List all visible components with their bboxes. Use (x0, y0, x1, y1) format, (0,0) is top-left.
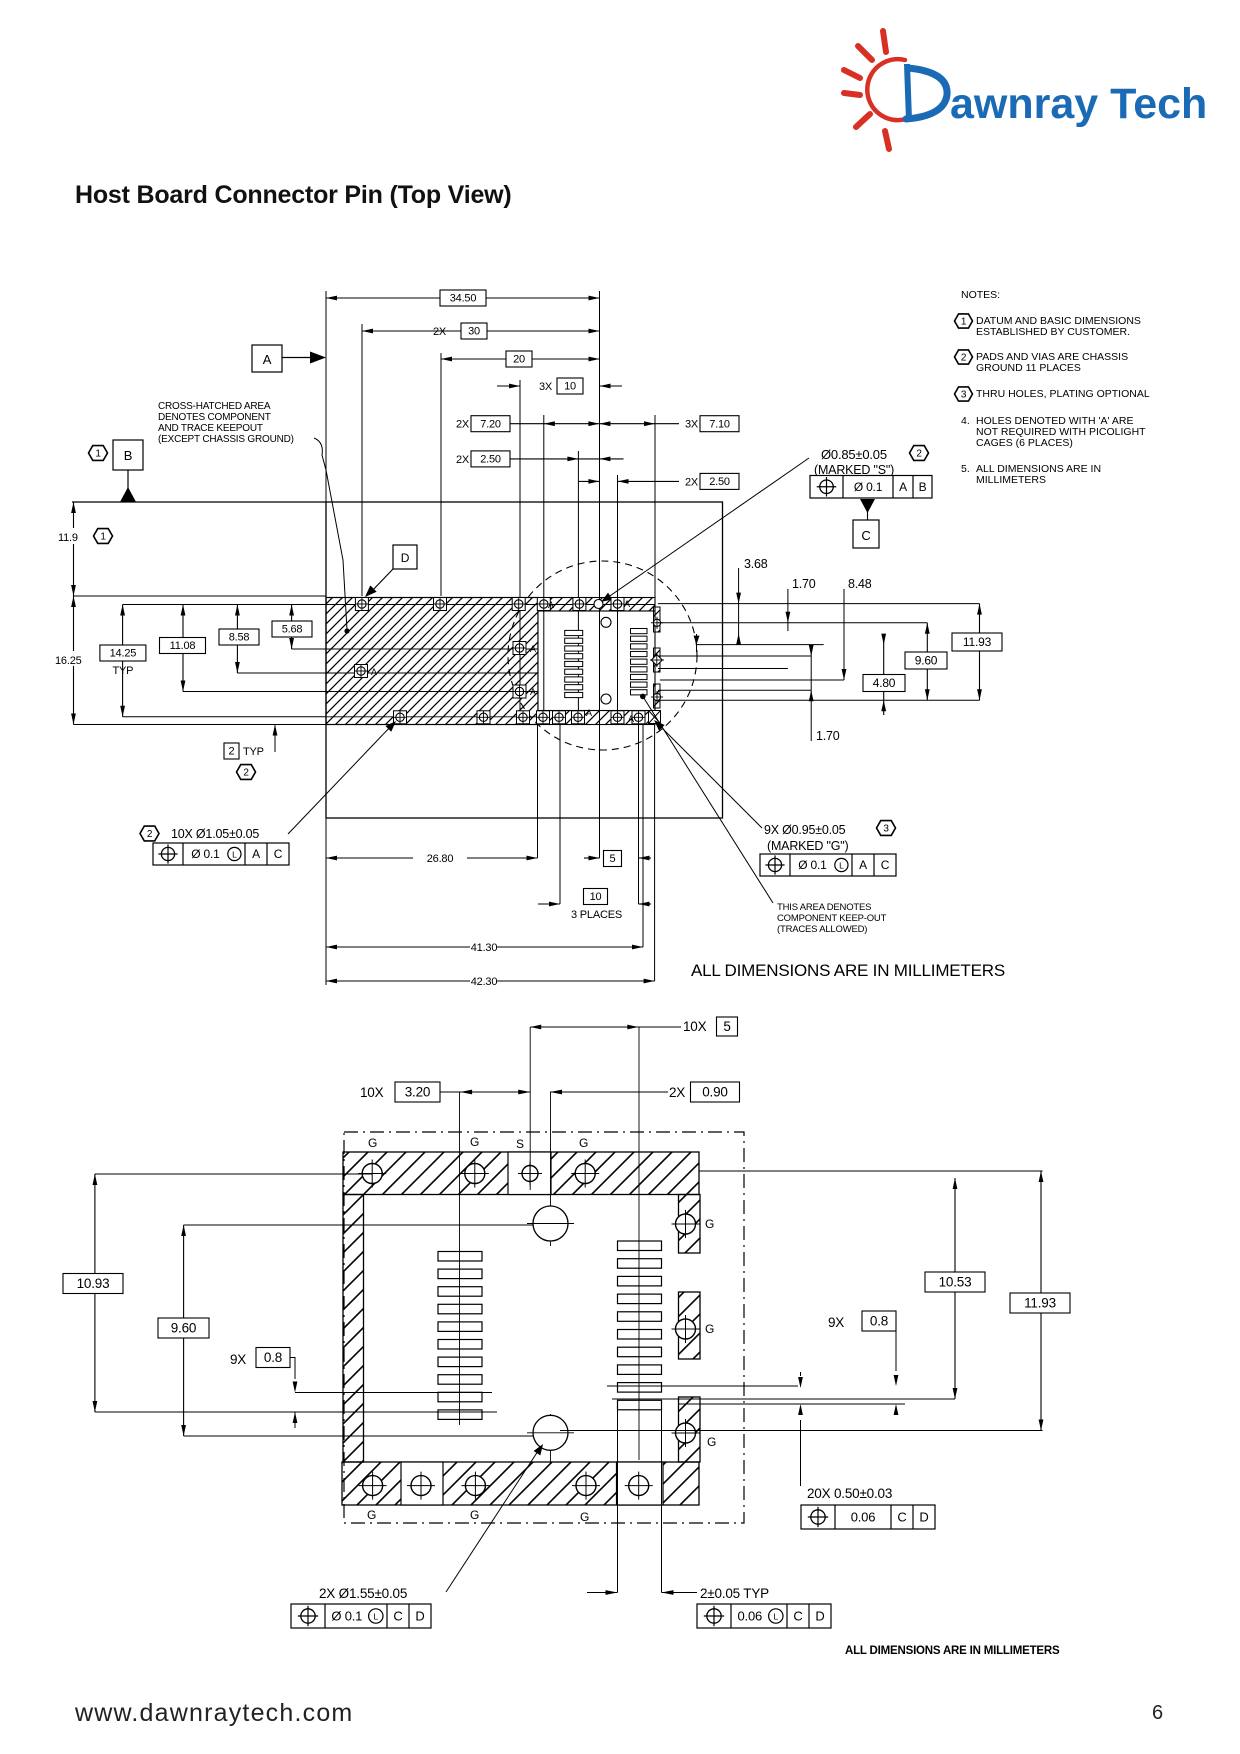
svg-text:A: A (859, 858, 867, 872)
dim 2X 2.50 right (617, 475, 619, 725)
hatched keepout area (326, 598, 538, 725)
svg-text:G: G (470, 1508, 479, 1522)
svg-text:A: A (628, 714, 634, 724)
svg-text:4.80: 4.80 (873, 676, 896, 690)
dim 3X 10 (519, 380, 521, 725)
svg-text:L: L (232, 849, 237, 859)
svg-text:G: G (367, 1508, 376, 1522)
svg-text:awnray Tech: awnray Tech (950, 80, 1207, 128)
svg-text:ALL DIMENSIONS ARE IN MILLIMET: ALL DIMENSIONS ARE IN MILLIMETERS (845, 1645, 1060, 1657)
svg-text:16.25: 16.25 (55, 655, 82, 667)
svg-text:42.30: 42.30 (471, 976, 498, 988)
dim 2X 0.90 (550, 1091, 668, 1093)
svg-text:4.: 4. (961, 415, 970, 427)
svg-text:A: A (263, 352, 272, 367)
svg-text:AND TRACE KEEPOUT: AND TRACE KEEPOUT (158, 423, 263, 434)
svg-text:NOTES:: NOTES: (961, 289, 1000, 301)
svg-text:3: 3 (961, 390, 967, 401)
svg-text:3X: 3X (685, 419, 699, 431)
svg-text:DENOTES COMPONENT: DENOTES COMPONENT (158, 412, 271, 423)
svg-text:L: L (374, 1611, 379, 1621)
svg-text:B: B (919, 480, 927, 494)
svg-text:10: 10 (590, 891, 602, 903)
svg-text:3: 3 (883, 824, 889, 835)
svg-text:G: G (368, 1136, 377, 1150)
vias mid (355, 665, 368, 678)
svg-text:0.06: 0.06 (851, 1510, 876, 1525)
svg-text:2: 2 (916, 449, 922, 460)
G pads right (676, 1214, 696, 1234)
svg-text:C: C (274, 847, 283, 861)
svg-text:A: A (548, 600, 554, 610)
svg-text:7.20: 7.20 (480, 418, 501, 430)
row lines (74, 595, 327, 597)
svg-text:(MARKED "G"): (MARKED "G") (767, 839, 849, 853)
svg-text:11.93: 11.93 (963, 635, 992, 649)
bottom band (342, 1462, 699, 1505)
dim 10X 5 (530, 1026, 638, 1028)
svg-text:1: 1 (100, 532, 106, 543)
board top edge line (72, 501, 326, 503)
svg-text:S: S (516, 1137, 524, 1151)
G pads bottom band (363, 1476, 383, 1496)
svg-text:10X Ø1.05±0.05: 10X Ø1.05±0.05 (171, 827, 259, 841)
dashed detail circle (508, 561, 697, 750)
dim 42.30 (326, 980, 470, 982)
svg-text:Ø0.85±0.05: Ø0.85±0.05 (821, 447, 887, 462)
svg-text:11.08: 11.08 (170, 640, 196, 652)
label D with arrow (393, 545, 417, 569)
svg-text:8.48: 8.48 (848, 577, 872, 591)
svg-text:D: D (815, 1609, 824, 1624)
svg-text:3.68: 3.68 (744, 557, 768, 571)
svg-text:10.93: 10.93 (77, 1276, 110, 1291)
dim 2X 30 (361, 324, 363, 596)
dim 11.93 (979, 604, 981, 701)
svg-text:C: C (793, 1609, 802, 1624)
svg-text:L: L (774, 1611, 779, 1621)
center line S column (529, 1027, 531, 1190)
svg-text:TYP: TYP (243, 746, 264, 758)
dim 10.93 (95, 1173, 372, 1175)
datum A label (252, 345, 282, 372)
svg-text:(EXCEPT CHASSIS GROUND): (EXCEPT CHASSIS GROUND) (158, 434, 294, 445)
svg-text:41.30: 41.30 (471, 942, 498, 954)
svg-text:2: 2 (243, 768, 249, 779)
dim 1.70 bottom (810, 650, 812, 742)
dim 4.80 (883, 634, 885, 715)
dim 2X 7.20 (543, 415, 545, 717)
svg-text:5.: 5. (961, 463, 970, 475)
hole S (594, 600, 603, 609)
svg-text:10X: 10X (683, 1019, 707, 1034)
dim 5.68 (291, 605, 293, 650)
svg-text:20X 0.50±0.03: 20X 0.50±0.03 (807, 1486, 892, 1501)
dim 16.25 / 11.9 vertical (73, 502, 75, 725)
svg-text:COMPONENT KEEP-OUT: COMPONENT KEEP-OUT (777, 913, 887, 924)
svg-text:A: A (252, 847, 260, 861)
svg-text:11.93: 11.93 (1024, 1296, 1056, 1311)
svg-text:Ø 0.1: Ø 0.1 (191, 847, 220, 861)
dim 14.25 TYP (122, 605, 124, 717)
dim 34.50 (325, 291, 327, 985)
svg-text:7.10: 7.10 (709, 418, 730, 430)
crossed pad corner (649, 711, 661, 724)
svg-text:1: 1 (961, 317, 967, 328)
svg-text:www.dawnraytech.com: www.dawnraytech.com (74, 1699, 353, 1727)
svg-text:2.50: 2.50 (480, 454, 501, 466)
hole column (550, 1092, 552, 1246)
svg-text:20: 20 (513, 354, 525, 366)
dim 9.60 (926, 623, 928, 701)
vias bottom strip (394, 711, 407, 724)
svg-text:11.9: 11.9 (58, 532, 78, 544)
callout 10X dia1.05 (140, 826, 159, 841)
leader to S hole (646, 458, 809, 571)
pads right column (618, 1241, 662, 1251)
svg-text:CAGES (6 PLACES): CAGES (6 PLACES) (976, 437, 1073, 449)
right edge vias (653, 619, 660, 626)
svg-text:C: C (393, 1609, 402, 1624)
dim 20 (440, 353, 442, 596)
svg-text:3X: 3X (539, 381, 553, 393)
svg-text:2X: 2X (433, 326, 447, 338)
svg-text:2: 2 (229, 746, 235, 758)
logo (844, 31, 1207, 149)
left band (343, 1195, 364, 1463)
svg-text:A: A (624, 599, 630, 609)
svg-text:0.06: 0.06 (738, 1609, 763, 1624)
dim 41.30 (326, 946, 470, 948)
svg-text:5: 5 (610, 853, 616, 865)
svg-text:G: G (579, 1136, 588, 1150)
svg-text:2X: 2X (456, 454, 470, 466)
dim 9.60 left (184, 1224, 533, 1226)
svg-text:0.8: 0.8 (264, 1350, 282, 1365)
svg-text:9X Ø0.95±0.05: 9X Ø0.95±0.05 (764, 823, 846, 837)
connector pads left column (565, 630, 583, 635)
center line left column (459, 1092, 461, 1425)
dim 10.53 (954, 1178, 956, 1399)
svg-text:3.20: 3.20 (405, 1085, 430, 1100)
dim 2X 2.50 left (577, 451, 579, 717)
dim 10 3 PLACES (538, 903, 560, 905)
svg-text:0.90: 0.90 (702, 1085, 727, 1100)
svg-text:C: C (881, 858, 890, 872)
2 TYP (224, 743, 239, 759)
pads left column (438, 1252, 482, 1262)
svg-text:(TRACES ALLOWED): (TRACES ALLOWED) (777, 924, 867, 935)
dim 20X 0.50 (798, 1377, 803, 1388)
svg-text:9.60: 9.60 (171, 1321, 196, 1336)
svg-text:G: G (470, 1135, 479, 1149)
dim 5 (584, 857, 600, 859)
svg-text:L: L (839, 860, 844, 870)
datum B (89, 446, 108, 461)
svg-text:2X: 2X (669, 1085, 685, 1100)
top right ext (699, 1170, 1043, 1172)
svg-text:A: A (371, 667, 377, 677)
top band (343, 1152, 699, 1195)
svg-text:6: 6 (1152, 1702, 1163, 1724)
right band segments (679, 1195, 701, 1254)
svg-text:10: 10 (564, 381, 576, 393)
svg-text:MILLIMETERS: MILLIMETERS (976, 474, 1046, 486)
svg-text:5.68: 5.68 (282, 624, 303, 636)
svg-text:A: A (530, 644, 536, 654)
S pad (522, 1166, 538, 1182)
right edge pads (654, 607, 661, 632)
svg-text:ALL DIMENSIONS ARE IN MILLIMET: ALL DIMENSIONS ARE IN MILLIMETERS (691, 961, 1005, 980)
G pads top band (362, 1164, 382, 1184)
svg-text:Host Board Connector Pin (Top: Host Board Connector Pin (Top View) (75, 181, 512, 209)
svg-text:THIS AREA DENOTES: THIS AREA DENOTES (777, 902, 871, 913)
svg-text:D: D (415, 1609, 424, 1624)
svg-text:2X: 2X (456, 419, 470, 431)
row stub arrow (696, 634, 698, 652)
svg-text:G: G (707, 1435, 716, 1449)
svg-text:ESTABLISHED BY CUSTOMER.: ESTABLISHED BY CUSTOMER. (976, 326, 1130, 338)
svg-text:B: B (124, 448, 132, 463)
svg-text:26.80: 26.80 (427, 853, 454, 865)
svg-text:9.60: 9.60 (915, 654, 938, 668)
svg-text:3 PLACES: 3 PLACES (571, 909, 622, 921)
svg-text:9X: 9X (828, 1315, 844, 1330)
dim 2 pm 0.05 TYP (617, 1410, 619, 1593)
svg-text:14.25: 14.25 (110, 648, 137, 660)
svg-text:G: G (580, 1510, 589, 1524)
svg-text:Ø 0.1: Ø 0.1 (798, 858, 827, 872)
svg-text:2: 2 (147, 829, 153, 840)
top drawing (54, 290, 1005, 988)
svg-text:GROUND 11 PLACES: GROUND 11 PLACES (976, 362, 1081, 374)
svg-text:8.58: 8.58 (229, 632, 250, 644)
svg-text:10.53: 10.53 (939, 1275, 972, 1290)
dim 8.58 (236, 605, 238, 674)
svg-text:2±0.05 TYP: 2±0.05 TYP (700, 1586, 769, 1601)
dash-dot outline (344, 1132, 744, 1523)
svg-text:2X Ø1.55±0.05: 2X Ø1.55±0.05 (319, 1586, 407, 1601)
svg-text:1.70: 1.70 (792, 577, 816, 591)
svg-text:Ø 0.1: Ø 0.1 (854, 480, 883, 494)
module outline box (326, 502, 723, 818)
svg-text:1.70: 1.70 (816, 729, 840, 743)
dim 11.08 (182, 605, 184, 692)
svg-text:2: 2 (961, 353, 967, 364)
svg-text:0.8: 0.8 (870, 1314, 888, 1329)
svg-text:A: A (899, 480, 907, 494)
svg-text:5: 5 (723, 1019, 730, 1034)
svg-text:TYP: TYP (113, 665, 134, 677)
svg-text:G: G (705, 1322, 714, 1336)
svg-text:A: A (530, 687, 536, 697)
svg-text:2X: 2X (685, 476, 699, 488)
svg-text:10X: 10X (360, 1085, 384, 1100)
svg-text:THRU HOLES, PLATING OPTIONAL: THRU HOLES, PLATING OPTIONAL (976, 388, 1150, 400)
svg-text:30: 30 (468, 326, 480, 338)
bottom drawing (63, 1017, 1070, 1657)
verticals to bottom dims (537, 725, 539, 859)
svg-text:C: C (897, 1510, 906, 1525)
svg-text:1: 1 (95, 449, 101, 460)
connector pads right column (631, 629, 648, 634)
dim 3X 7.10 (655, 423, 679, 425)
svg-text:9X: 9X (230, 1352, 246, 1367)
holes 1.55 (533, 1206, 568, 1241)
svg-text:D: D (919, 1510, 928, 1525)
svg-text:C: C (861, 528, 870, 543)
connector holes (601, 617, 611, 627)
svg-text:(MARKED "S"): (MARKED "S") (814, 463, 894, 477)
svg-text:Ø 0.1: Ø 0.1 (331, 1609, 362, 1624)
right rows (658, 603, 980, 605)
svg-text:34.50: 34.50 (450, 293, 477, 305)
vias top strip (355, 598, 368, 611)
svg-text:A: A (586, 708, 592, 718)
dim 11.93 right (1040, 1171, 1042, 1431)
center line right column (638, 1027, 640, 1460)
svg-text:D: D (401, 551, 410, 565)
svg-text:CROSS-HATCHED AREA: CROSS-HATCHED AREA (158, 401, 271, 412)
svg-text:G: G (705, 1217, 714, 1231)
svg-text:2.50: 2.50 (709, 476, 730, 488)
dim 26.80 (326, 857, 413, 859)
